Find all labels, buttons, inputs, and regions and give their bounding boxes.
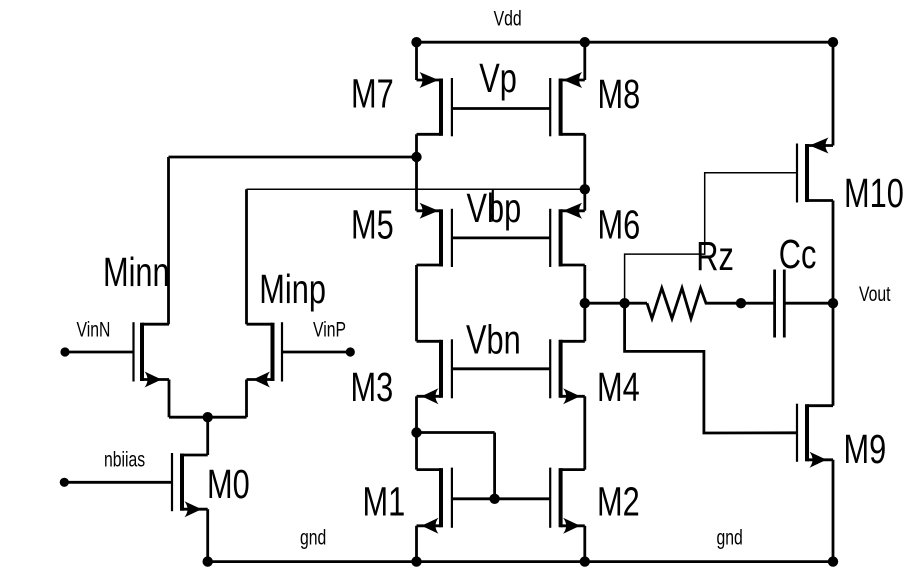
wire M10 gate loop (thin): [625, 173, 797, 303]
wire M9 source to gnd: [832, 460, 835, 562]
wire down to M1-M2 gate bus: [493, 433, 496, 499]
wire Minp source down: [245, 380, 248, 418]
svg-text:Cc: Cc: [779, 231, 817, 277]
svg-text:Vbn: Vbn: [466, 316, 521, 362]
node E junction on gate bus: [489, 494, 499, 504]
wire Vp gate bus M7-M8: [452, 107, 550, 110]
transistor M4 (NMOS cascode): [559, 340, 563, 398]
wire node A to input branch (long horizontal): [169, 156, 417, 159]
wire M6 drain to node C: [583, 265, 586, 303]
wire M0 source to gnd: [206, 509, 209, 561]
wire M4 source down to M2 drain: [583, 396, 586, 469]
transistor M7 (PMOS): [439, 79, 443, 136]
node B junction (M8 drain): [580, 184, 590, 194]
node gnd-M2 junction: [580, 556, 590, 566]
wire node C down to M4 drain: [583, 303, 586, 341]
wire M3 source down to node D: [415, 396, 418, 432]
wire M10 drain down to Vout: [832, 201, 835, 304]
svg-text:VinN: VinN: [77, 317, 111, 341]
wire node C to Rz: [585, 302, 647, 305]
wire Minp source to tail node: [208, 416, 247, 419]
wire M7 source to Vdd: [415, 42, 418, 80]
wire Cc to Vout node: [784, 302, 833, 305]
svg-text:M3: M3: [351, 364, 394, 410]
transistor M8 (PMOS): [559, 79, 563, 136]
transistor M0 (NMOS tail source): [180, 454, 184, 511]
svg-text:M6: M6: [598, 201, 641, 247]
node Vdd-M8 junction: [580, 37, 590, 47]
node A junction (M7 drain): [411, 152, 421, 162]
node gnd-M0 junction: [203, 556, 213, 566]
wire M1 source to gnd: [415, 526, 418, 562]
svg-text:M2: M2: [597, 478, 640, 524]
wire Vout node down to M9 drain: [832, 303, 835, 406]
wire M8 drain down to node B: [583, 134, 586, 211]
svg-text:nbiias: nbiias: [104, 447, 145, 471]
wire M7 drain down to node A: [415, 134, 418, 211]
transistor M6 (PMOS cascode): [559, 209, 563, 266]
node G junction (Rz-Cc): [736, 298, 746, 308]
wire down to Minp drain: [245, 189, 248, 324]
capacitor Cc: [773, 270, 776, 338]
node gnd-M9 junction: [828, 556, 838, 566]
wire node D down to M1 drain: [415, 433, 418, 470]
node F junction (gate tap): [619, 298, 629, 308]
svg-text:Vdd: Vdd: [494, 6, 522, 30]
svg-text:M7: M7: [351, 70, 394, 116]
svg-text:M0: M0: [207, 461, 250, 507]
wire M10 source to Vdd: [832, 42, 835, 145]
VinP terminal: [346, 347, 355, 356]
wire down to Minn drain: [167, 157, 170, 324]
wire M2 source to gnd: [583, 526, 586, 562]
svg-text:M4: M4: [597, 364, 640, 410]
svg-text:Minn: Minn: [103, 249, 170, 295]
wire M8 source to Vdd: [583, 42, 586, 80]
svg-text:M1: M1: [363, 478, 406, 524]
wire Minn source down: [168, 380, 171, 418]
transistor Minp (input NMOS): [271, 323, 275, 381]
node C junction (first stage output): [580, 298, 590, 308]
node gnd-M1 junction: [411, 556, 421, 566]
Vdd power rail: [417, 41, 834, 44]
node Vdd-M10 junction: [828, 37, 838, 47]
transistor M9 (NMOS output): [805, 404, 809, 461]
wire stub on node B net: [492, 189, 494, 221]
svg-text:M5: M5: [351, 201, 394, 247]
transistor M5 (PMOS cascode): [439, 209, 443, 266]
wire M5 drain to M3 drain: [415, 265, 418, 341]
wire tail node to M0 drain: [206, 417, 209, 455]
wire Vbp gate bus M5-M6: [452, 236, 550, 239]
svg-text:Vout: Vout: [859, 282, 891, 306]
svg-text:Vp: Vp: [479, 55, 517, 101]
wire Vbn gate bus M3-M4: [452, 367, 550, 370]
node Vdd-M7 junction: [411, 37, 421, 47]
wire nbiias to M0 gate: [64, 481, 172, 484]
wire M1-M2 gate bus: [452, 497, 550, 500]
svg-text:M8: M8: [598, 71, 641, 117]
transistor M1 (NMOS mirror): [439, 468, 443, 527]
transistor M10 (PMOS output): [805, 144, 809, 202]
transistor Minn (input NMOS): [140, 323, 144, 381]
node Vout junction: [828, 298, 838, 308]
transistor M2 (NMOS mirror): [559, 468, 563, 527]
wire VinN to Minn gate: [65, 351, 134, 354]
wire VinP to Minp gate: [282, 351, 350, 354]
node D junction (M3 source / M1 drain): [411, 427, 421, 437]
wire node D to M1-M2 gate (horizontal): [417, 431, 495, 434]
svg-text:M9: M9: [844, 426, 887, 472]
wire Minn source to tail node: [169, 416, 208, 419]
wire node F to M9 gate: [625, 303, 797, 433]
transistor M3 (NMOS cascode): [439, 340, 443, 398]
svg-text:M10: M10: [844, 170, 904, 216]
svg-text:gnd: gnd: [717, 525, 743, 549]
svg-text:gnd: gnd: [300, 525, 326, 549]
nbiias terminal: [60, 478, 69, 487]
resistor Rz: [647, 288, 741, 319]
VinN terminal: [60, 347, 69, 356]
wire node G to Cc: [741, 302, 775, 305]
gnd power rail: [208, 560, 833, 563]
node tail junction: [203, 412, 213, 422]
svg-text:Minp: Minp: [259, 266, 326, 312]
svg-text:VinP: VinP: [313, 317, 346, 341]
wire node B to Minp drain (thin horizontal): [247, 188, 585, 190]
svg-text:Rz: Rz: [696, 233, 734, 279]
